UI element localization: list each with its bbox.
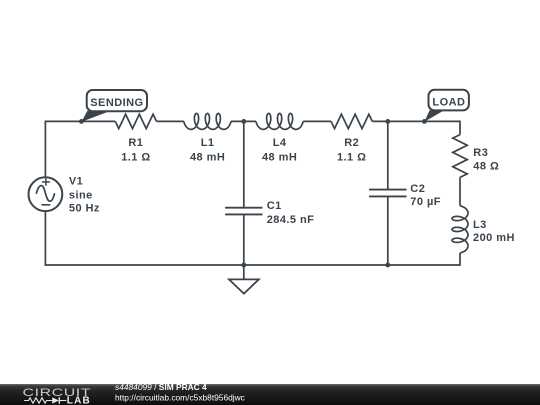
svg-text:L4: L4 <box>273 137 287 149</box>
wire C2 branch upper <box>387 121 389 189</box>
resistor R3 <box>453 135 499 178</box>
wire top rail R2 to right corner down to R3 <box>372 121 460 134</box>
wire C1 branch upper <box>243 121 245 207</box>
svg-text:s4484099 / SIM PRAC 4: s4484099 / SIM PRAC 4 <box>115 382 207 392</box>
svg-text:L3: L3 <box>473 219 487 231</box>
footer logo circuit glyph <box>24 398 52 403</box>
svg-text:SENDING: SENDING <box>90 97 143 109</box>
wire right vertical R3 to L3 <box>459 177 461 205</box>
svg-text:1.1 Ω: 1.1 Ω <box>337 152 366 164</box>
node SENDING <box>79 90 147 124</box>
footer bar <box>0 384 540 405</box>
inductor L3 <box>452 206 515 253</box>
svg-text:R3: R3 <box>473 147 488 159</box>
svg-text:sine: sine <box>69 189 93 201</box>
inductor L1 <box>184 113 231 163</box>
wire C2 branch lower <box>387 196 389 265</box>
node junction C2 top <box>385 119 390 124</box>
svg-text:LOAD: LOAD <box>432 97 465 109</box>
svg-text:V1: V1 <box>69 176 83 188</box>
svg-text:70 µF: 70 µF <box>410 196 441 208</box>
svg-text:C1: C1 <box>267 200 282 212</box>
wire bottom rail with corners <box>45 211 460 265</box>
voltage source V1 <box>29 176 100 215</box>
wire top rail R1 to L1 <box>157 120 184 122</box>
svg-text:http://circuitlab.com/c5xb8t95: http://circuitlab.com/c5xb8t956djwc <box>115 392 245 402</box>
wire top rail left segment with corner to V1 <box>45 121 115 177</box>
node junction C1 top <box>241 119 246 124</box>
resistor R2 <box>331 114 372 163</box>
inductor L4 <box>256 113 303 163</box>
capacitor C1 <box>225 200 314 226</box>
svg-text:R2: R2 <box>344 137 359 149</box>
capacitor C2 <box>369 183 441 208</box>
wire top rail L4 to R2 <box>303 120 331 122</box>
ground <box>229 265 259 294</box>
svg-text:48 Ω: 48 Ω <box>473 161 499 173</box>
svg-text:50 Hz: 50 Hz <box>69 203 100 215</box>
svg-text:R1: R1 <box>128 137 143 149</box>
svg-text:C2: C2 <box>410 183 425 195</box>
svg-text:284.5 nF: 284.5 nF <box>267 214 315 226</box>
node LOAD <box>422 90 469 124</box>
svg-text:L1: L1 <box>201 137 215 149</box>
svg-text:200 mH: 200 mH <box>473 232 515 244</box>
svg-text:48 mH: 48 mH <box>262 152 297 164</box>
svg-text:48 mH: 48 mH <box>190 152 225 164</box>
wire C1 branch lower <box>243 214 245 265</box>
svg-text:1.1 Ω: 1.1 Ω <box>121 152 150 164</box>
resistor R1 <box>115 114 156 163</box>
wire top rail L1 to L4 <box>231 120 256 122</box>
node junction C2 bottom <box>385 263 390 268</box>
svg-text:LAB: LAB <box>67 396 91 405</box>
node junction ground <box>241 263 246 268</box>
